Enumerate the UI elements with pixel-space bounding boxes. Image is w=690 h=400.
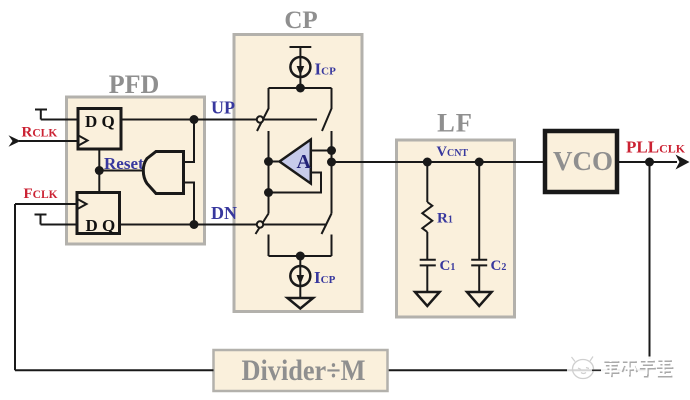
wire VCNT to C2 <box>478 162 480 260</box>
wire DN: FF2 Q output to charge pump <box>120 224 328 226</box>
wire bottom left stub <box>268 235 270 257</box>
svg-text:PFD: PFD <box>109 70 160 99</box>
ground symbol C1 <box>415 292 440 306</box>
watermark text 摩尔学堂 <box>601 357 673 378</box>
wire bottom horizontal bar <box>269 255 332 257</box>
op-amp U2 buffer A <box>280 140 312 184</box>
wire FF1 reset vertical <box>98 149 100 192</box>
node bottom bar junction <box>296 252 305 261</box>
svg-text:RCLK: RCLK <box>22 125 58 141</box>
wire gate input stub top <box>184 120 195 163</box>
wire bottom right stub <box>331 235 333 257</box>
VDD tie T symbol for FF1 D input <box>35 110 47 120</box>
PFD block box <box>67 97 205 244</box>
svg-text:LF: LF <box>437 108 473 138</box>
node feedback junction <box>264 188 273 197</box>
svg-text:A: A <box>297 151 312 173</box>
VDD tie T symbol for FF2 D input <box>35 215 47 225</box>
svg-text:D Q: D Q <box>86 216 116 235</box>
svg-text:FCLK: FCLK <box>24 186 58 202</box>
wire feedback vertical right <box>649 162 651 370</box>
wire D input to FF1 <box>41 119 78 121</box>
svg-text:VCO: VCO <box>553 146 613 176</box>
current source ICP bottom <box>290 266 310 286</box>
current source ICP top <box>290 57 310 77</box>
switch S3 (DN, left) <box>256 214 269 235</box>
svg-text:UP: UP <box>211 98 235 118</box>
switch S2 (UP, right) <box>322 88 332 131</box>
wire D input to FF2 <box>41 224 78 226</box>
node PLLCLK junction <box>645 158 654 167</box>
PLLCLK output arrow <box>676 155 690 170</box>
RCLK input arrow <box>9 135 21 146</box>
wire op-amp output to left rail <box>269 161 280 163</box>
wire Reset to AND gate output <box>99 170 143 172</box>
capacitor C1 <box>420 260 436 266</box>
wire feedback bottom right <box>388 369 650 371</box>
LF block box <box>397 140 515 317</box>
node op-amp input junction <box>327 146 336 155</box>
wire feedback vertical left <box>14 204 16 370</box>
wire VCNT main line CP to VCO <box>332 161 544 163</box>
divider block box <box>214 350 388 391</box>
node LF left junction <box>423 158 432 167</box>
wire VCNT to resistor <box>426 162 428 202</box>
capacitor C2 <box>471 260 487 266</box>
wire RCLK to FF1 clock <box>19 140 78 142</box>
AND gate U1 (reset gate, mirrored) <box>143 152 183 194</box>
svg-text:PLLCLK: PLLCLK <box>626 138 686 157</box>
node op-amp output junction <box>264 157 273 166</box>
wire left rail <box>268 131 270 214</box>
svg-text:D Q: D Q <box>85 112 115 131</box>
ground symbol C2 <box>467 292 492 306</box>
node DN junction <box>190 220 199 229</box>
node UP junction <box>190 115 199 124</box>
wire bar to bottom current source <box>299 256 301 298</box>
wire VDD to top rail <box>299 47 301 88</box>
svg-text:CP: CP <box>284 7 317 34</box>
switch S4 (DN, right) <box>322 214 332 235</box>
wire op-amp input from right rail <box>311 150 332 152</box>
node VCNT output junction <box>327 158 336 167</box>
ground symbol CP <box>288 298 314 309</box>
watermark logo doodle <box>567 356 601 379</box>
node top rail junction <box>296 84 305 93</box>
svg-text:DN: DN <box>211 203 237 223</box>
CP block box <box>234 35 362 312</box>
switch S1 (UP, left) <box>257 88 269 131</box>
flip-flop FF1 (top D-FF) <box>78 109 121 150</box>
wire UP: FF1 Q output to charge pump <box>121 119 317 121</box>
wire op-amp feedback loop <box>269 173 322 193</box>
wire feedback bottom left <box>15 369 214 371</box>
wire right rail <box>331 131 333 214</box>
wire C2 to ground <box>478 265 480 292</box>
wire FCLK to FF2 clock <box>15 203 77 205</box>
wire top horizontal bar <box>269 87 332 89</box>
VDD bar of top current source <box>290 46 312 48</box>
wire VCO output <box>619 161 677 163</box>
svg-text:Divider÷M: Divider÷M <box>242 354 366 387</box>
resistor R1 <box>422 202 432 232</box>
VCO block box <box>545 131 617 192</box>
wire gate input stub bottom <box>184 183 195 225</box>
node LF right junction <box>475 158 484 167</box>
flip-flop FF2 (bottom D-FF) <box>77 193 120 236</box>
wire C1 to ground <box>426 265 428 292</box>
wire resistor to C1 <box>426 232 428 260</box>
node Reset junction <box>95 166 104 175</box>
